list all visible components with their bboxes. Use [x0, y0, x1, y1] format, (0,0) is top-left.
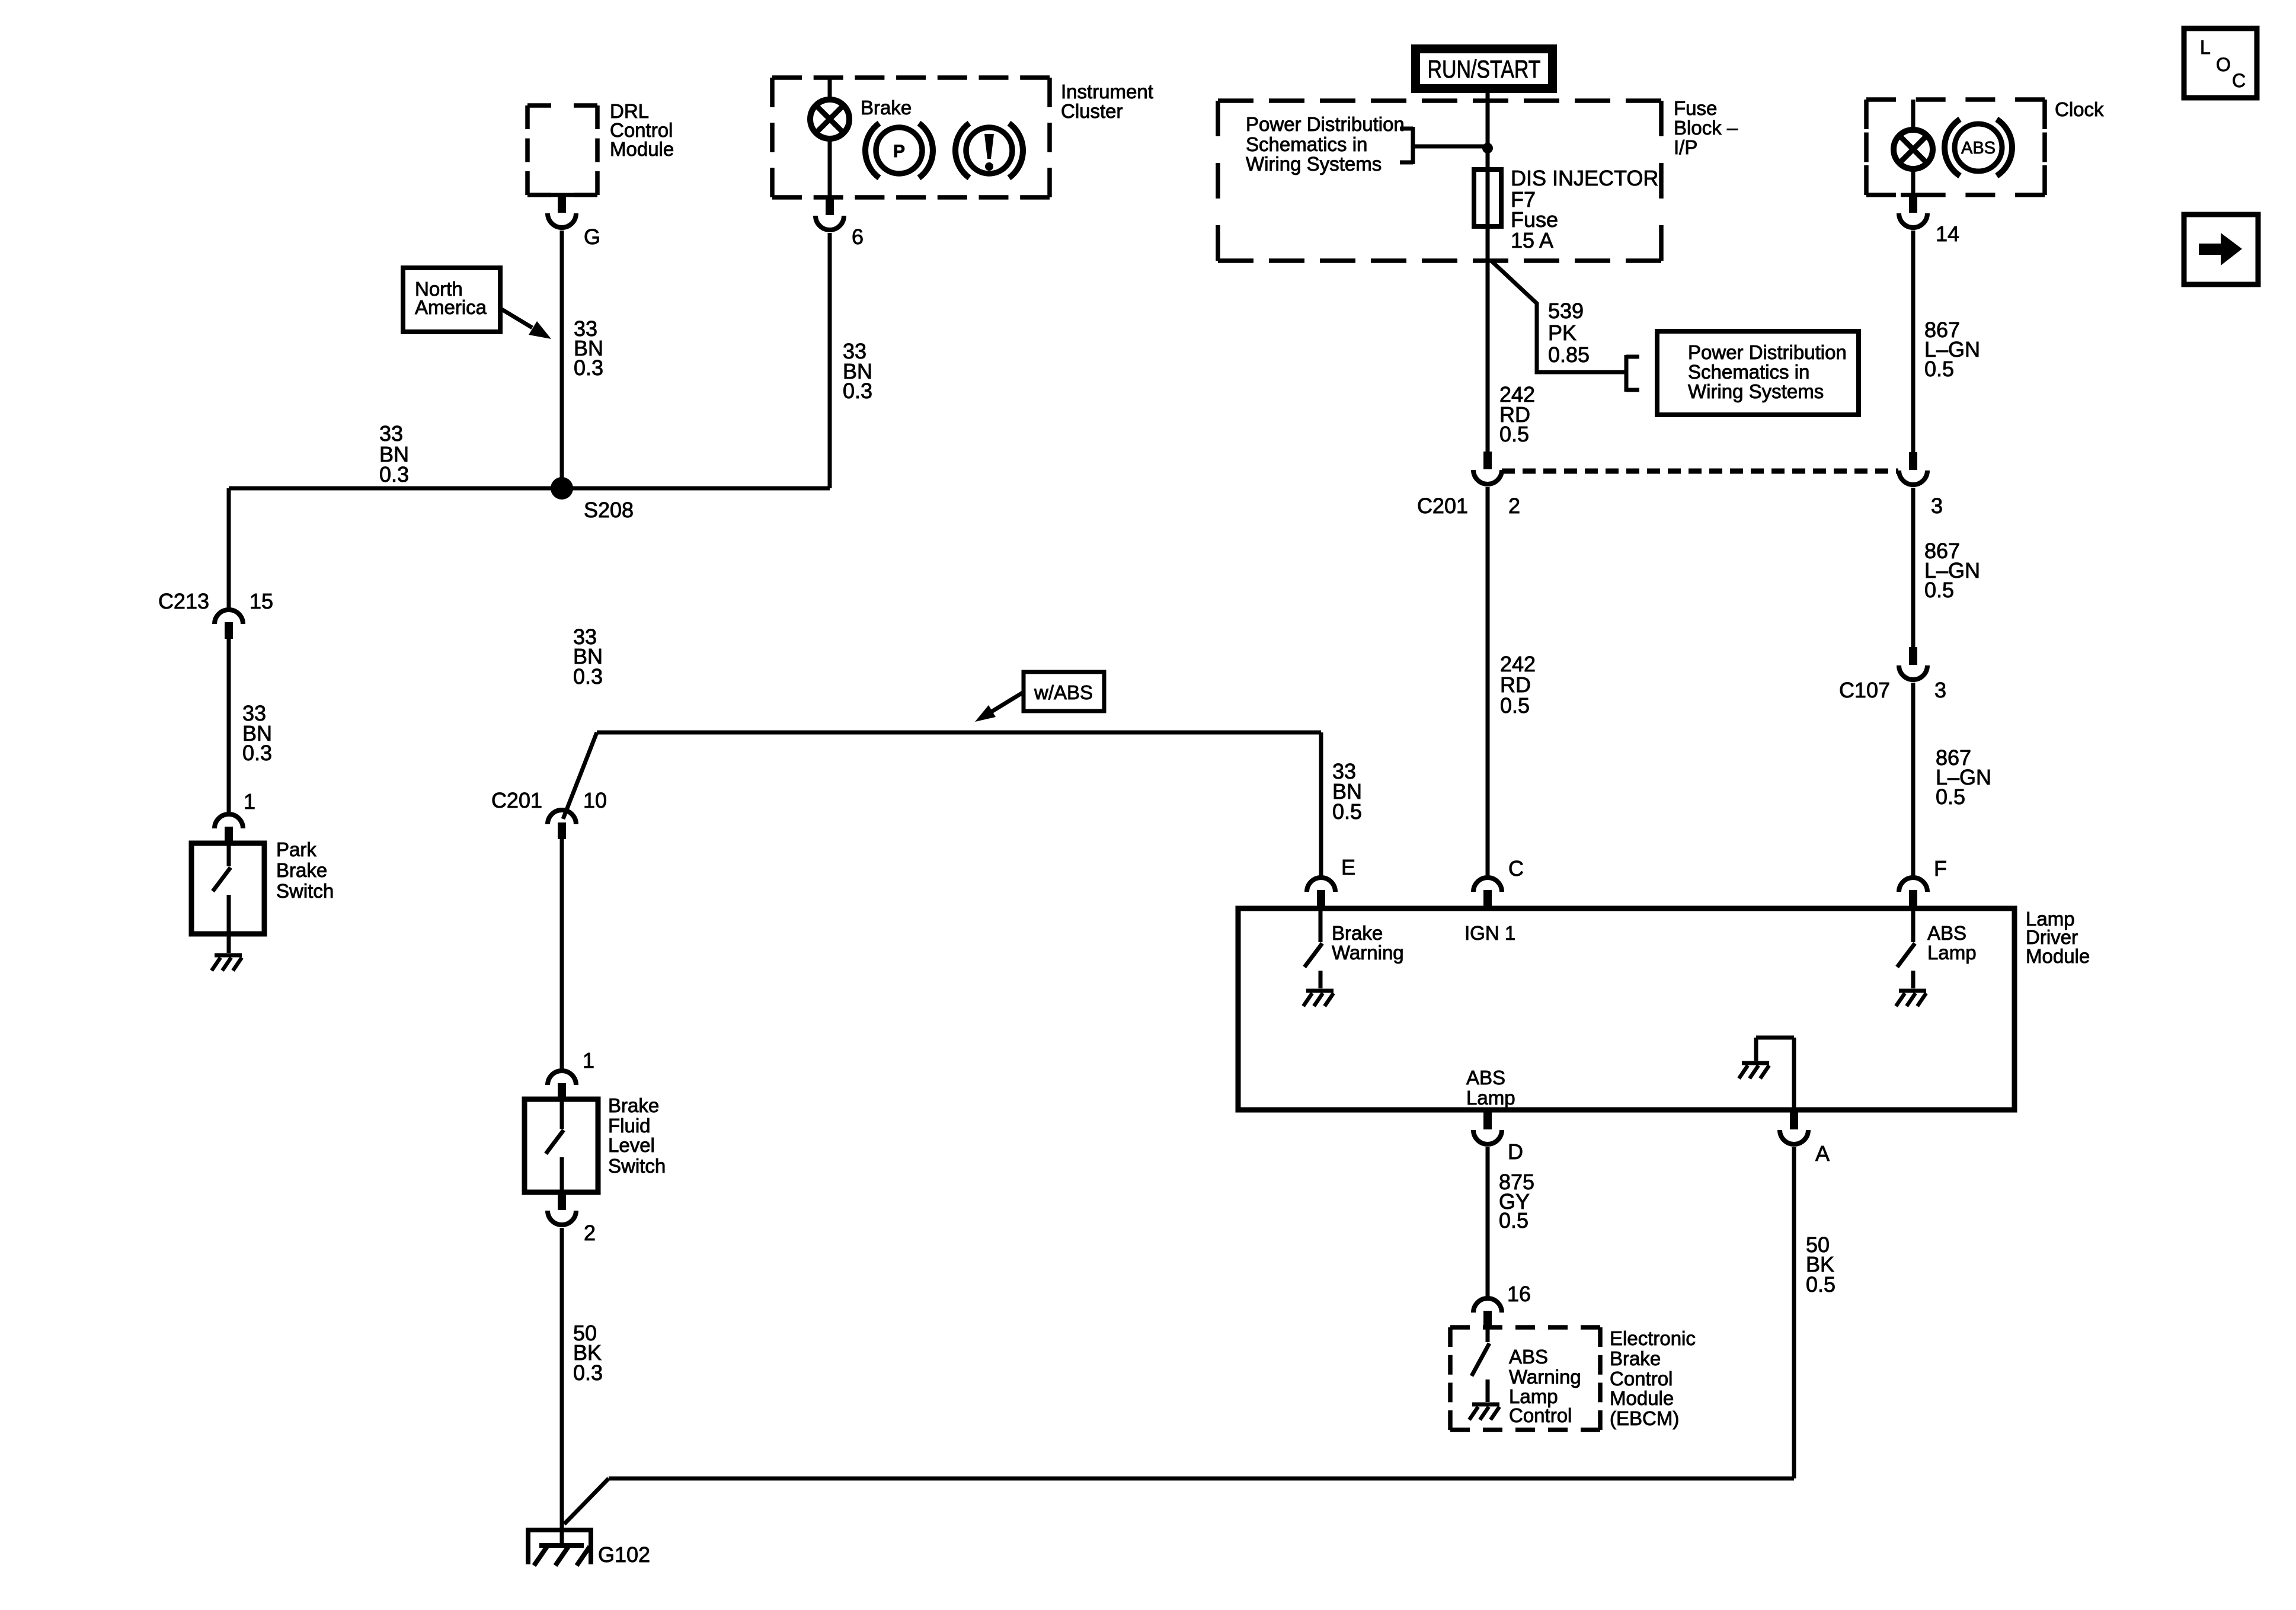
- svg-text:E: E: [1341, 855, 1355, 879]
- pin label 15: [250, 589, 273, 613]
- svg-text:15 A: 15 A: [1511, 228, 1553, 252]
- svg-text:Power Distribution: Power Distribution: [1688, 341, 1847, 363]
- internal ground bracket: [1739, 1038, 1794, 1110]
- wire C213 to park brake: [227, 639, 231, 812]
- svg-text:Warning: Warning: [1509, 1366, 1581, 1388]
- svg-text:Power Distribution: Power Distribution: [1246, 113, 1405, 135]
- wire 539 branch: [1491, 261, 1626, 372]
- wire lamp to cluster bottom: [828, 138, 832, 197]
- pin label A: [1815, 1141, 1830, 1166]
- EBCM label: [1610, 1327, 1696, 1429]
- pin label 1 (BFLS): [583, 1048, 594, 1073]
- Brake Warning label: [1332, 922, 1404, 964]
- Brake Fluid Level Switch box: [525, 1099, 598, 1192]
- LOC reference box: [2184, 28, 2257, 98]
- wire lamp top: [828, 78, 832, 100]
- pin label C: [1508, 856, 1524, 881]
- North America label: [415, 278, 487, 318]
- Power Distribution note 1: [1246, 113, 1405, 175]
- Brake lamp symbol: [810, 100, 849, 139]
- svg-text:0.3: 0.3: [573, 1361, 603, 1385]
- pin label F: [1934, 856, 1947, 881]
- svg-text:ABS: ABS: [1927, 922, 1966, 944]
- svg-text:Control: Control: [1509, 1404, 1572, 1426]
- svg-text:G102: G102: [598, 1542, 650, 1567]
- wire C201-10 to BFLS: [560, 839, 564, 1069]
- connector pin C: [1473, 878, 1502, 907]
- junction S208: [551, 477, 573, 500]
- wire BFLS to G102: [560, 1228, 564, 1548]
- bracket to note 1: [1400, 127, 1413, 164]
- wire label 867 L-GN 0.5 (2): [1924, 539, 1980, 602]
- wire label 875 GY 0.5: [1499, 1170, 1534, 1233]
- pin label 3: [1931, 494, 1943, 518]
- svg-text:F: F: [1934, 856, 1947, 881]
- svg-text:Level: Level: [608, 1134, 655, 1156]
- wire 14 down: [1911, 231, 1916, 453]
- svg-text:Module: Module: [2026, 945, 2090, 967]
- w/ABS label: [1034, 681, 1093, 703]
- connector pin E: [1307, 878, 1335, 907]
- svg-text:0.5: 0.5: [1499, 1208, 1528, 1233]
- svg-text:Schematics in: Schematics in: [1246, 133, 1367, 155]
- G102 label: [598, 1542, 650, 1567]
- ABS indicator: [1945, 119, 2012, 176]
- wire 3 to C107: [1911, 488, 1916, 648]
- DRL Control Module label: [610, 100, 674, 160]
- pin label 6: [852, 225, 864, 249]
- IGN 1 label: [1464, 922, 1515, 944]
- pin label 16: [1507, 1282, 1531, 1306]
- connector pin 6: [816, 196, 844, 231]
- wire label 33 BN 0.3 (park wire): [242, 701, 272, 765]
- pin label 1 (park): [244, 789, 255, 814]
- svg-text:Module: Module: [1610, 1387, 1674, 1409]
- svg-text:Brake: Brake: [608, 1094, 659, 1116]
- pin label 14: [1936, 222, 1959, 246]
- svg-text:Fuse: Fuse: [1674, 97, 1717, 119]
- pin label 2: [1508, 494, 1520, 518]
- svg-text:O: O: [2216, 54, 2231, 75]
- wire label 539 PK 0.85: [1548, 299, 1590, 367]
- svg-text:S208: S208: [584, 498, 634, 522]
- Lamp Driver Module label: [2026, 908, 2090, 967]
- Brake Fluid Level Switch label: [608, 1094, 666, 1177]
- svg-text:0.3: 0.3: [379, 462, 409, 486]
- svg-text:2: 2: [584, 1221, 596, 1245]
- pin label G: [584, 225, 600, 249]
- Lamp Driver Module box: [1238, 908, 2014, 1110]
- svg-text:Electronic: Electronic: [1610, 1327, 1696, 1349]
- wire label 242 RD 0.5 (lower): [1500, 652, 1536, 718]
- wire label 33 BN 0.3 (cluster wire): [843, 339, 872, 403]
- ABS Lamp label (bottom): [1466, 1067, 1515, 1109]
- ABS Lamp label (F): [1927, 922, 1977, 964]
- wire w/ABS down to E: [1319, 732, 1323, 876]
- C201 label (pin2): [1417, 494, 1468, 518]
- svg-text:15: 15: [250, 589, 273, 613]
- svg-text:w/ABS: w/ABS: [1034, 681, 1093, 703]
- svg-text:1: 1: [244, 789, 255, 814]
- svg-text:Lamp: Lamp: [1927, 942, 1977, 964]
- S208 horizontal wire: [229, 486, 830, 491]
- svg-text:P: P: [893, 142, 905, 161]
- Clock (dashed box): [1866, 100, 2045, 195]
- wire bracket to junction: [1413, 145, 1488, 149]
- clock lamp symbol: [1894, 130, 1933, 169]
- S208 label: [584, 498, 634, 522]
- brake warning indicator (!): [955, 123, 1023, 178]
- ABS warning lamp control switch: [1472, 1327, 1489, 1402]
- svg-text:1: 1: [583, 1048, 594, 1073]
- C107 label: [1839, 678, 1890, 702]
- North America arrow: [501, 309, 551, 339]
- svg-text:0.3: 0.3: [573, 664, 603, 689]
- Power Distribution box 2: [1657, 331, 1859, 415]
- svg-text:America: America: [415, 296, 487, 318]
- junction dot (fuse feed): [1482, 143, 1493, 153]
- Park Brake Switch box: [191, 843, 264, 934]
- fuse label DIS INJECTOR F7 Fuse 15 A: [1511, 166, 1658, 252]
- svg-text:0.5: 0.5: [1332, 799, 1362, 824]
- svg-text:A: A: [1815, 1141, 1830, 1166]
- wire label 33 BN 0.5 (wABS): [1332, 759, 1362, 824]
- Brake label: [861, 97, 912, 119]
- svg-text:0.5: 0.5: [1499, 422, 1529, 446]
- wire w/ABS horizontal: [597, 731, 1321, 735]
- svg-text:Fluid: Fluid: [608, 1115, 651, 1137]
- wire A down: [1792, 1147, 1796, 1478]
- svg-text:Park: Park: [276, 838, 316, 860]
- connector pin 3 (harness row): [1899, 452, 1927, 485]
- svg-text:Brake: Brake: [1610, 1347, 1661, 1369]
- ground bus diagonal: [564, 1478, 609, 1524]
- connector C213 pin 15: [215, 610, 243, 639]
- RUN/START label: [1428, 55, 1541, 83]
- EBCM dashed box: [1450, 1327, 1600, 1430]
- wire label 33 BN 0.3 (DRL wire): [574, 316, 603, 380]
- svg-text:DIS INJECTOR: DIS INJECTOR: [1511, 166, 1658, 190]
- connector BFLS pin 2: [548, 1192, 576, 1225]
- Instrument Cluster (dashed box): [772, 78, 1050, 197]
- wire clock lamp top: [1911, 100, 1916, 130]
- connector pin 14: [1899, 193, 1927, 228]
- bracket to note 2: [1626, 355, 1639, 392]
- svg-text:Switch: Switch: [608, 1155, 666, 1177]
- wire label 867 L-GN 0.5 (3): [1936, 745, 1991, 809]
- wire C201-2 to pin C: [1486, 487, 1490, 876]
- pin label 2 (BFLS): [584, 1221, 596, 1245]
- North America box: [403, 268, 500, 332]
- wire RUN/START down: [1486, 93, 1490, 453]
- svg-text:3: 3: [1931, 494, 1943, 518]
- Fuse Block I/P (dashed box): [1218, 101, 1661, 261]
- svg-text:Wiring Systems: Wiring Systems: [1688, 380, 1824, 402]
- wire D down: [1486, 1147, 1490, 1297]
- svg-text:Schematics in: Schematics in: [1688, 361, 1809, 383]
- ground G102: [526, 1530, 593, 1566]
- svg-text:PK: PK: [1548, 321, 1576, 345]
- svg-text:6: 6: [852, 225, 864, 249]
- svg-text:L: L: [2200, 37, 2211, 58]
- wire label 867 L-GN 0.5 (1): [1924, 318, 1980, 381]
- Park Brake Switch label: [276, 838, 334, 902]
- ground bus horizontal wire: [609, 1477, 1794, 1481]
- pin label D: [1508, 1140, 1523, 1164]
- connector C107 pin 3: [1899, 647, 1927, 680]
- svg-text:Instrument: Instrument: [1061, 81, 1153, 103]
- svg-text:G: G: [584, 225, 600, 249]
- pin label 3 (C107): [1934, 678, 1946, 702]
- park brake indicator (P): [865, 123, 933, 178]
- svg-text:IGN 1: IGN 1: [1464, 922, 1515, 944]
- svg-text:Warning: Warning: [1332, 942, 1404, 964]
- wire label 242 RD 0.5 (upper): [1499, 382, 1535, 446]
- svg-text:0.3: 0.3: [843, 379, 872, 403]
- svg-text:0.5: 0.5: [1936, 785, 1965, 809]
- connector C201 pin 2: [1473, 452, 1502, 484]
- svg-text:C201: C201: [1417, 494, 1468, 518]
- svg-text:0.5: 0.5: [1924, 357, 1954, 381]
- w/ABS box: [1024, 672, 1104, 711]
- wire lamp to clock bottom: [1911, 168, 1916, 195]
- svg-text:RUN/START: RUN/START: [1428, 55, 1541, 83]
- svg-text:Lamp: Lamp: [1466, 1087, 1515, 1109]
- ABS Warning Lamp Control label: [1509, 1346, 1581, 1426]
- brake warning ground: [1303, 991, 1334, 1006]
- svg-text:0.3: 0.3: [242, 741, 272, 765]
- svg-text:Clock: Clock: [2055, 98, 2104, 120]
- svg-text:16: 16: [1507, 1282, 1531, 1306]
- pin label E: [1341, 855, 1355, 879]
- svg-text:10: 10: [583, 788, 607, 812]
- w/ABS arrow: [975, 692, 1024, 722]
- svg-text:3: 3: [1934, 678, 1946, 702]
- continuation arrow box: [2184, 215, 2258, 284]
- svg-text:ABS: ABS: [1466, 1067, 1505, 1089]
- svg-text:2: 2: [1508, 494, 1520, 518]
- fuse F7 15A: [1474, 169, 1501, 226]
- Instrument Cluster label: [1061, 81, 1153, 122]
- wire C201-10 diagonal: [563, 732, 597, 819]
- brake warning switch: [1304, 908, 1322, 988]
- Power Distribution note 2: [1688, 341, 1847, 402]
- svg-text:Brake: Brake: [1332, 922, 1383, 944]
- svg-text:(EBCM): (EBCM): [1610, 1407, 1679, 1429]
- RUN/START box: [1411, 44, 1557, 93]
- connector BFLS pin 1: [548, 1071, 576, 1100]
- svg-text:Cluster: Cluster: [1061, 100, 1123, 122]
- connector C201 pin 10: [548, 810, 576, 839]
- svg-text:Switch: Switch: [276, 880, 334, 902]
- wire C107 to pin F: [1911, 683, 1916, 876]
- svg-text:0.5: 0.5: [1806, 1272, 1835, 1297]
- svg-text:D: D: [1508, 1140, 1523, 1164]
- wire label 33 BN 0.3 (left branch): [379, 421, 409, 486]
- svg-text:0.5: 0.5: [1924, 578, 1954, 602]
- wire label 50 BK 0.5: [1806, 1233, 1835, 1297]
- wire 6 to S208: [828, 233, 832, 488]
- svg-text:C: C: [2232, 70, 2246, 91]
- svg-text:C213: C213: [158, 589, 209, 613]
- svg-text:0.3: 0.3: [574, 356, 603, 380]
- wire label 33 BN 0.3 (mid): [573, 625, 603, 689]
- ABS lamp switch ground: [1896, 991, 1926, 1006]
- svg-text:Brake: Brake: [276, 859, 327, 881]
- pin label 10: [583, 788, 607, 812]
- svg-text:0.5: 0.5: [1500, 693, 1530, 718]
- connector pin A: [1780, 1112, 1808, 1144]
- svg-text:C107: C107: [1839, 678, 1890, 702]
- connector pin 16: [1473, 1298, 1502, 1327]
- svg-text:I/P: I/P: [1674, 136, 1697, 158]
- C201 dashed harness line: [1502, 469, 1898, 474]
- connector pin F: [1899, 878, 1927, 907]
- Clock label: [2055, 98, 2104, 120]
- wire G to S208: [560, 231, 564, 488]
- BFLS switch contacts: [546, 1099, 564, 1192]
- svg-text:ABS: ABS: [1961, 139, 1996, 158]
- svg-text:14: 14: [1936, 222, 1959, 246]
- svg-text:C201: C201: [491, 788, 542, 812]
- svg-text:0.85: 0.85: [1548, 343, 1590, 367]
- C213 label: [158, 589, 209, 613]
- svg-text:539: 539: [1548, 299, 1584, 323]
- park brake switch contacts: [213, 843, 231, 934]
- DRL Control Module (dashed box): [527, 105, 597, 195]
- wire label 50 BK 0.3: [573, 1321, 603, 1385]
- connector pin D: [1473, 1112, 1502, 1144]
- connector park pin 1: [215, 814, 243, 843]
- svg-text:ABS: ABS: [1509, 1346, 1548, 1368]
- svg-text:Wiring Systems: Wiring Systems: [1246, 153, 1382, 175]
- svg-text:Control: Control: [1610, 1368, 1673, 1390]
- ABS lamp switch: [1897, 908, 1915, 988]
- park brake ground: [212, 934, 242, 971]
- svg-text:C: C: [1508, 856, 1524, 881]
- wire S208 to C213: [227, 488, 231, 608]
- svg-text:Block –: Block –: [1674, 117, 1738, 139]
- svg-text:Module: Module: [610, 138, 674, 160]
- C201 label (pin10): [491, 788, 542, 812]
- EBCM switch ground: [1469, 1404, 1499, 1420]
- connector pin G: [548, 193, 576, 228]
- Fuse Block label: [1674, 97, 1738, 158]
- svg-text:Brake: Brake: [861, 97, 912, 119]
